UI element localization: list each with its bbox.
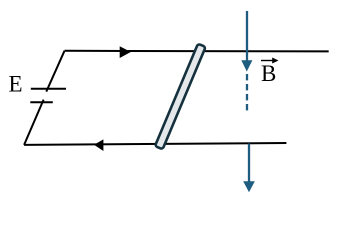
vector arrow over B <box>261 60 274 62</box>
conducting rod <box>155 44 206 150</box>
B field arrow (bottom) <box>248 144 250 183</box>
svg-text:B: B <box>261 61 276 86</box>
wire (left lower diagonal) <box>24 100 43 145</box>
wire (left upper diagonal) <box>46 51 64 92</box>
battery bottom plate <box>30 101 53 103</box>
B field arrowhead (top) <box>241 60 252 71</box>
battery top plate <box>31 88 66 90</box>
current arrow (bottom, pointing left) <box>94 139 103 151</box>
B field dashed continuation <box>246 74 248 111</box>
top wire <box>65 50 329 53</box>
current arrow (top, pointing right) <box>120 46 131 58</box>
bottom wire <box>24 143 286 145</box>
B field arrowhead (bottom) <box>243 181 255 192</box>
svg-text:E: E <box>9 71 23 96</box>
B field arrow (top, solid) <box>246 11 248 62</box>
